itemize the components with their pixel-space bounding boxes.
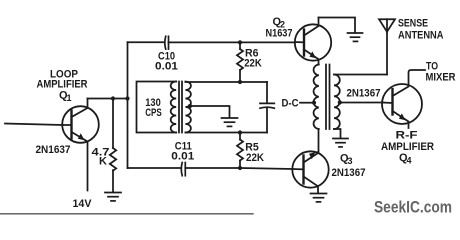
svg-text:4: 4 — [407, 156, 412, 166]
antenna (sense) — [379, 19, 395, 32]
wire: junction to Q3 base — [240, 168, 293, 169]
node: R6 bottom junction — [238, 80, 242, 84]
svg-text:1: 1 — [67, 93, 72, 103]
node: R5 top junction — [238, 130, 242, 134]
node: T2 secondary center tap — [338, 100, 342, 104]
svg-text:ANTENNA: ANTENNA — [398, 30, 444, 42]
node: T2 primary center tap (D-C) — [312, 101, 316, 105]
label Q3 — [340, 153, 353, 167]
transformer T1 core — [179, 82, 182, 133]
capacitor (tuning, unlabeled) — [260, 103, 274, 108]
svg-text:R-F: R-F — [396, 130, 418, 142]
wire: T1 secondary top — [185, 81, 267, 83]
wire: right branch down to capacitor — [266, 82, 268, 103]
transformer T2 core — [326, 65, 330, 130]
svg-text:K: K — [99, 156, 107, 168]
label TO MIXER — [426, 61, 456, 84]
resistor R5 22K — [237, 133, 243, 169]
node: T1 secondary center tap — [188, 104, 192, 108]
node: rail / R2 top junction — [111, 96, 115, 100]
svg-text:3: 3 — [348, 156, 353, 166]
node: bottom rail / R5 / Q3 base junction — [238, 166, 242, 170]
label C11 0.01 — [171, 141, 194, 163]
resistor R6 22K — [237, 42, 243, 82]
svg-text:CPS: CPS — [145, 107, 162, 119]
node: rail / left bus junction — [125, 96, 129, 100]
ground (below 4.7K) — [105, 193, 121, 201]
wire: C10 to Q2 base — [169, 41, 296, 43]
wire: tap to Q4 base — [340, 102, 383, 104]
transistor Q1 2N1637 — [62, 99, 99, 191]
svg-text:2N1367: 2N1367 — [332, 167, 366, 179]
node: R6 top junction — [238, 40, 242, 44]
label R5 22K — [245, 142, 264, 165]
label LOOP AMPLIFIER Q1 — [37, 69, 88, 104]
svg-text:2N1637: 2N1637 — [36, 144, 71, 156]
transformer T1 secondary winding — [185, 82, 191, 133]
label 130 CPS — [145, 97, 162, 119]
wire: Q1 base input line — [5, 124, 63, 126]
wire: D-C lead — [300, 102, 314, 104]
label SENSE ANTENNA — [398, 18, 444, 42]
label C10 0.01 — [155, 51, 178, 73]
svg-text:0.01: 0.01 — [155, 61, 178, 73]
svg-text:N1637: N1637 — [266, 28, 293, 40]
transistor Q2 N1637 — [295, 18, 331, 65]
svg-text:SENSE: SENSE — [398, 18, 428, 30]
wire: T2 primary bottom to Q3 — [318, 129, 320, 152]
label 4.7 K — [92, 147, 110, 168]
ground (T2 secondary) — [333, 139, 348, 147]
wire: Q2 collector to ground — [319, 18, 356, 33]
svg-text:D-C: D-C — [282, 97, 299, 109]
wire: T2 secondary top — [334, 74, 387, 76]
svg-text:MIXER: MIXER — [426, 72, 456, 84]
svg-text:SeekIC.com: SeekIC.com — [374, 198, 452, 217]
svg-text:2N1367: 2N1367 — [347, 88, 381, 100]
transformer T1 primary winding — [171, 82, 176, 133]
wire: center tap to ground — [190, 106, 230, 118]
transformer T2 secondary winding — [334, 75, 340, 130]
label R-F AMPLIFIER Q4 — [381, 130, 434, 166]
scan artifact line bottom left — [0, 213, 253, 215]
wire: Q1 collector rail — [88, 98, 128, 100]
ground (T1 center tap) — [222, 118, 238, 126]
capacitor C11 — [181, 163, 185, 176]
label Q2 — [273, 16, 286, 30]
wire: T1 secondary bottom — [185, 132, 267, 134]
wire: T2 secondary bottom to ground — [334, 129, 341, 138]
svg-text:22K: 22K — [246, 152, 264, 164]
transformer T2 primary winding — [314, 65, 319, 130]
transistor Q3 2N1367 — [292, 151, 328, 193]
ground (Q2 collector) — [348, 33, 363, 41]
wire: antenna feed — [386, 32, 388, 75]
resistor 4.7K — [110, 99, 116, 193]
svg-text:22K: 22K — [244, 58, 262, 70]
wire: bottom rail (right of C11) — [185, 167, 240, 169]
svg-text:14V: 14V — [73, 198, 93, 210]
transistor Q4 2N1367 — [382, 70, 425, 128]
capacitor C10 — [165, 36, 169, 49]
label R6 22K — [244, 48, 262, 70]
wire: left vertical bus — [127, 42, 129, 168]
wire: capacitor to bottom — [266, 107, 268, 132]
resonator box 130 CPS — [137, 82, 177, 133]
ground (Q3 collector) — [311, 194, 327, 202]
wire: bottom rail (left of C11) — [128, 167, 181, 169]
wire: top rail (to C10) — [128, 41, 165, 43]
svg-text:0.01: 0.01 — [171, 151, 194, 163]
